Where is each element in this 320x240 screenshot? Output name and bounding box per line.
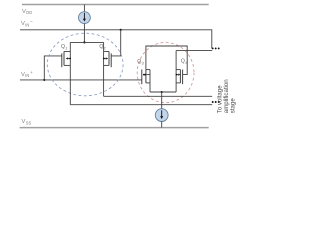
wire: Q1 drain output line: [70, 104, 212, 106]
svg-text:DD: DD: [26, 10, 32, 15]
svg-text:+: +: [30, 71, 33, 76]
svg-text:−: −: [30, 20, 33, 25]
Q1 label: [61, 44, 67, 50]
transistor Q4: [176, 51, 183, 92]
svg-text:SS: SS: [26, 121, 32, 126]
wire: Q3 drain to Q4 gate tie: [146, 46, 187, 75]
current source I1 (tail, top): [79, 5, 91, 43]
svg-text:3: 3: [142, 61, 144, 66]
VDD label: [22, 9, 32, 15]
svg-text:2: 2: [104, 45, 106, 50]
VIN+ label: [21, 71, 33, 78]
VSS label: [22, 119, 32, 125]
wire: tail to Q1/Q2 sources: [70, 41, 103, 43]
node: tail junction: [83, 41, 85, 43]
continuation dots (top): [212, 47, 220, 49]
transistor Q2: [104, 42, 112, 96]
current source I2 (bottom): [155, 92, 168, 128]
wire: Q4 drain shelf to next stage: [176, 50, 212, 52]
VIN- rail: [20, 30, 212, 49]
wire: Q2 gate riser: [111, 30, 121, 56]
svg-text:IN: IN: [25, 73, 29, 78]
transistor Q3: [142, 70, 150, 93]
Q2 label: [99, 44, 105, 50]
wire: Q2 drain output line: [104, 95, 213, 97]
wire: Q1 gate riser: [44, 56, 62, 80]
continuation dots (bottom): [212, 101, 220, 103]
svg-text:stage: stage: [229, 98, 236, 114]
VIN- label: [21, 20, 33, 27]
node: mirror tail junction: [161, 91, 163, 93]
label: To voltage amplification stage: [217, 79, 237, 113]
svg-text:IN: IN: [25, 23, 29, 28]
transistor Q1: [62, 42, 71, 104]
svg-text:1: 1: [65, 45, 67, 50]
dashed blue circle (differential pair): [47, 33, 123, 96]
node: VIN- to Q2 gate junction: [120, 29, 122, 31]
node: VIN+ to Q1 gate junction: [43, 79, 45, 81]
dashed red circle (current mirror): [137, 43, 194, 103]
wire: Q3/Q4 common source: [150, 91, 176, 93]
VSS rail: [20, 127, 209, 129]
Q3 label: [137, 59, 143, 65]
VDD rail: [22, 4, 209, 6]
VIN+ rail: [20, 79, 142, 81]
Q4 label: [181, 59, 188, 65]
